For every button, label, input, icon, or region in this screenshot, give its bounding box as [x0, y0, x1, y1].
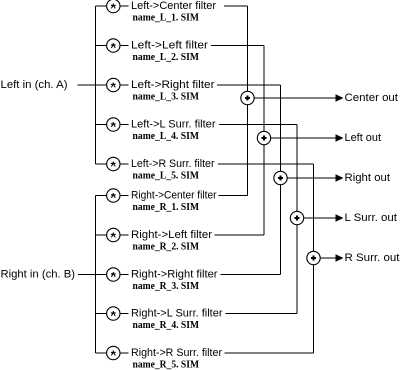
svg-text:name_L_1. SIM: name_L_1. SIM: [133, 12, 200, 23]
svg-text:Right->L Surr. filter: Right->L Surr. filter: [131, 308, 223, 320]
svg-text:Center out: Center out: [345, 92, 399, 104]
svg-text:Left->Left filter: Left->Left filter: [131, 40, 208, 52]
svg-text:Left in (ch. A): Left in (ch. A): [1, 79, 68, 91]
svg-text:Left->R Surr. filter: Left->R Surr. filter: [131, 158, 215, 170]
svg-text:L Surr. out: L Surr. out: [345, 212, 398, 224]
svg-text:Right->Center filter: Right->Center filter: [131, 190, 217, 202]
svg-text:name_R_4. SIM: name_R_4. SIM: [133, 320, 200, 331]
svg-text:name_L_5. SIM: name_L_5. SIM: [133, 170, 200, 181]
svg-text:name_R_3. SIM: name_R_3. SIM: [133, 281, 200, 292]
svg-text:name_R_1. SIM: name_R_1. SIM: [133, 202, 200, 213]
svg-text:Left->Center filter: Left->Center filter: [131, 0, 216, 12]
svg-text:Right->R Surr. filter: Right->R Surr. filter: [131, 347, 222, 359]
svg-text:name_R_5. SIM: name_R_5. SIM: [133, 359, 200, 370]
svg-text:Left out: Left out: [345, 132, 382, 144]
svg-text:R Surr. out: R Surr. out: [345, 252, 400, 264]
svg-text:name_L_2. SIM: name_L_2. SIM: [133, 52, 200, 63]
svg-text:name_L_4. SIM: name_L_4. SIM: [133, 131, 200, 142]
svg-text:Right in (ch. B): Right in (ch. B): [1, 269, 76, 281]
svg-text:Left->L Surr. filter: Left->L Surr. filter: [131, 119, 216, 131]
svg-text:Right->Right filter: Right->Right filter: [131, 269, 218, 281]
svg-text:name_L_3. SIM: name_L_3. SIM: [133, 91, 200, 102]
svg-text:name_R_2. SIM: name_R_2. SIM: [133, 241, 200, 252]
svg-text:Right out: Right out: [345, 172, 391, 184]
svg-text:Right->Left filter: Right->Left filter: [131, 229, 212, 241]
svg-text:Left->Right filter: Left->Right filter: [131, 79, 215, 91]
